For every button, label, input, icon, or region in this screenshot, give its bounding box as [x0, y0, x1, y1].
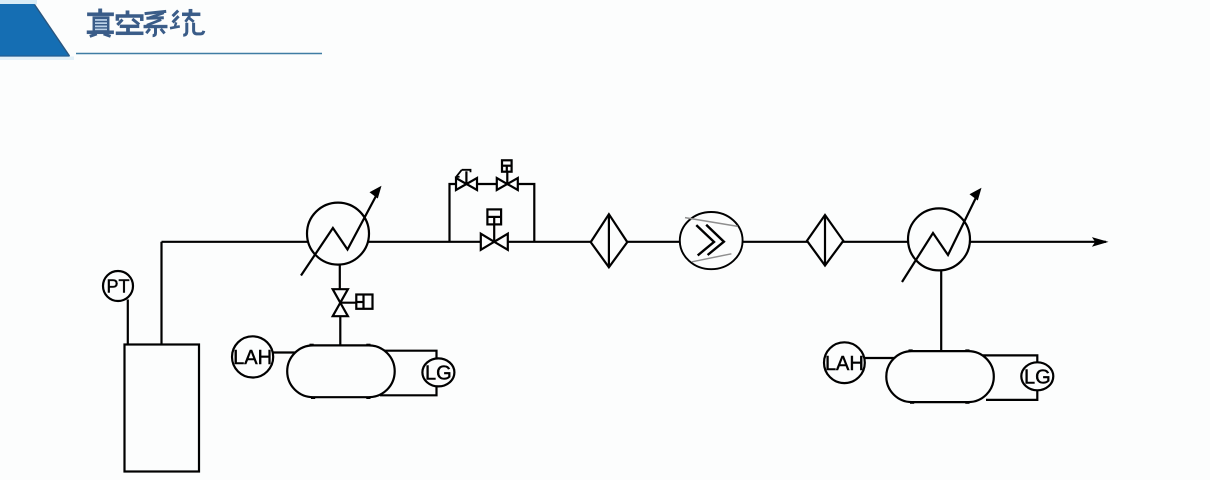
svg-text:PT: PT — [106, 277, 129, 297]
svg-text:LG: LG — [425, 363, 452, 385]
svg-text:LAH: LAH — [825, 353, 864, 375]
svg-text:LG: LG — [1024, 367, 1051, 389]
svg-text:LAH: LAH — [233, 347, 272, 369]
